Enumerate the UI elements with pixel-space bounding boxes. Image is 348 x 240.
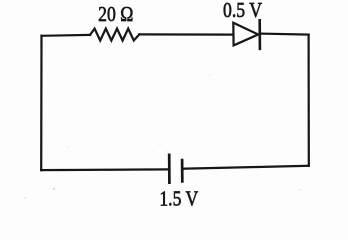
scan speck xyxy=(299,189,301,191)
wire left vertical xyxy=(40,36,42,170)
battery cell left long plate xyxy=(168,155,171,183)
scan speck xyxy=(53,188,55,190)
svg-text:20 Ω: 20 Ω xyxy=(98,4,133,27)
svg-text:0.5 V: 0.5 V xyxy=(223,0,262,22)
wire bottom-right segment xyxy=(182,166,309,169)
scan speck xyxy=(67,146,69,148)
wire between resistor and diode xyxy=(139,33,233,35)
scan speck xyxy=(24,197,26,199)
wire bottom-left segment xyxy=(41,168,169,171)
wire diode to top-right corner xyxy=(260,34,309,35)
wire top-left segment xyxy=(42,34,91,37)
diode D1 triangle (anode) xyxy=(233,23,258,46)
scan speck xyxy=(159,144,161,146)
svg-text:1.5 V: 1.5 V xyxy=(159,188,198,211)
resistor R 20Ω zigzag xyxy=(90,29,139,41)
scan speck xyxy=(209,74,211,76)
battery cell right short plate xyxy=(181,160,184,181)
diode D1 cathode bar xyxy=(258,20,261,49)
wire right vertical xyxy=(308,35,310,166)
